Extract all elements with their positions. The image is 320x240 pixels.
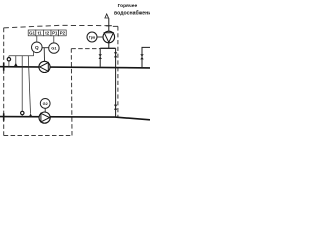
svg-text:Горячее: Горячее xyxy=(118,3,138,9)
svg-text:P1: P1 xyxy=(52,31,58,36)
svg-text:G2: G2 xyxy=(43,102,48,106)
svg-text:G1: G1 xyxy=(29,31,35,36)
svg-text:t2: t2 xyxy=(45,31,49,36)
svg-text:P2: P2 xyxy=(60,31,66,36)
svg-text:G1: G1 xyxy=(51,46,57,51)
svg-text:Грв: Грв xyxy=(89,35,96,39)
svg-text:t1: t1 xyxy=(38,31,42,36)
svg-text:Q: Q xyxy=(35,45,39,50)
svg-text:водоснабжение: водоснабжение xyxy=(114,9,150,16)
